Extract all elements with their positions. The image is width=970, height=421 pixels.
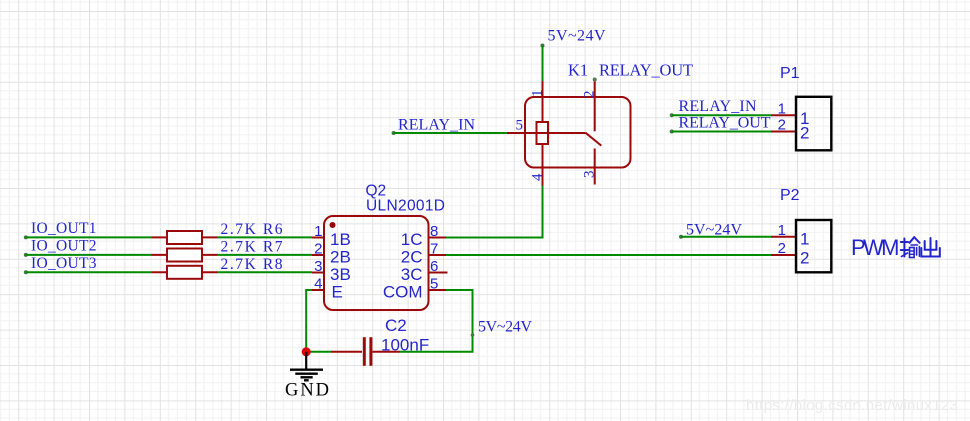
wire R6 to U pin 1 — [218, 236, 313, 238]
svg-text:3: 3 — [314, 258, 322, 275]
wire RELAY_IN to P1 pin 1 — [670, 113, 771, 117]
glyph 输 — [901, 237, 920, 257]
svg-text:RELAY_IN: RELAY_IN — [679, 98, 757, 115]
junction dot — [302, 347, 311, 356]
svg-text:2: 2 — [314, 241, 322, 258]
wire C2 left to ground junction — [306, 351, 331, 353]
wire RELAY_OUT to P1 pin 2 — [670, 130, 771, 134]
svg-text:6: 6 — [430, 258, 438, 275]
wire Q2 pin 8 to relay pin 4 — [446, 186, 543, 238]
resistor R7 — [152, 249, 218, 262]
svg-text:3B: 3B — [330, 265, 351, 284]
svg-text:7: 7 — [430, 241, 438, 258]
svg-text:P1: P1 — [780, 65, 800, 82]
connector P1 — [771, 97, 831, 151]
svg-text:RELAY_OUT: RELAY_OUT — [679, 114, 771, 131]
wire Q2 pin 7 to P2 pin 2 — [446, 254, 771, 256]
connector P2 — [771, 220, 831, 272]
svg-text:2: 2 — [800, 249, 809, 268]
svg-text:K1: K1 — [568, 61, 588, 80]
svg-text:5: 5 — [430, 276, 438, 293]
wire RELAY_IN to relay pin 5 — [392, 131, 507, 135]
svg-text:4: 4 — [530, 173, 546, 181]
svg-text:5V~24V: 5V~24V — [478, 319, 532, 336]
op-amp U1 / IC Q2 ULN2001D body — [312, 216, 448, 310]
resistor R6 — [152, 231, 218, 244]
svg-text:2B: 2B — [330, 248, 351, 267]
svg-text:IO_OUT2: IO_OUT2 — [31, 238, 97, 255]
svg-text:P2: P2 — [780, 187, 800, 204]
svg-text:E: E — [332, 283, 343, 302]
ground — [290, 352, 323, 381]
svg-text:1: 1 — [530, 90, 546, 98]
glyph 出 — [921, 238, 940, 257]
svg-text:1: 1 — [800, 230, 809, 249]
resistor R8 — [152, 266, 218, 279]
svg-text:COM: COM — [383, 283, 423, 302]
svg-text:4: 4 — [314, 276, 322, 293]
svg-text:C2: C2 — [385, 316, 407, 335]
svg-text:2: 2 — [582, 91, 598, 99]
svg-text:IO_OUT3: IO_OUT3 — [31, 255, 97, 272]
wire IO_OUT1 to R6 — [24, 235, 152, 239]
wire IO_OUT3 to R8 — [24, 270, 152, 274]
svg-text:5V~24V: 5V~24V — [548, 28, 606, 45]
svg-text:3: 3 — [582, 171, 598, 179]
svg-text:2: 2 — [778, 117, 786, 134]
wire 5V~24V to relay pin 1 — [541, 44, 545, 82]
svg-text:1: 1 — [778, 222, 786, 239]
svg-text:ULN2001D: ULN2001D — [366, 198, 445, 215]
svg-text:1: 1 — [314, 223, 322, 240]
wire Q2 pin 5 COM to capacitor C2 — [400, 290, 474, 352]
relay K1 — [507, 78, 631, 186]
capacitor C2 — [331, 337, 400, 366]
svg-text:1B: 1B — [330, 230, 351, 249]
svg-text:RELAY_OUT: RELAY_OUT — [599, 61, 693, 80]
svg-text:2: 2 — [800, 124, 809, 143]
svg-text:GND: GND — [285, 381, 329, 401]
svg-text:3C: 3C — [401, 265, 423, 284]
svg-text:RELAY_IN: RELAY_IN — [398, 117, 475, 134]
wire IO_OUT2 to R7 — [24, 253, 152, 257]
svg-text:https://blog.csdn.net/winux123: https://blog.csdn.net/winux123 — [746, 397, 958, 414]
svg-text:2C: 2C — [401, 248, 423, 267]
svg-text:2: 2 — [778, 240, 786, 257]
svg-text:5: 5 — [516, 118, 524, 134]
wire R7 to U pin 2 — [218, 254, 313, 256]
wire Q2 pin 4 E to ground — [306, 290, 312, 352]
svg-text:8: 8 — [430, 223, 438, 240]
svg-text:PWM: PWM — [851, 235, 900, 260]
svg-text:IO_OUT1: IO_OUT1 — [31, 220, 97, 237]
wire P2 pin 2 stub — [771, 254, 796, 256]
svg-text:100nF: 100nF — [381, 336, 429, 355]
wire R8 to U pin 3 — [218, 271, 313, 273]
wire 5V~24V to P2 pin 1 — [679, 235, 771, 239]
svg-text:1C: 1C — [401, 230, 423, 249]
svg-text:1: 1 — [778, 101, 786, 118]
